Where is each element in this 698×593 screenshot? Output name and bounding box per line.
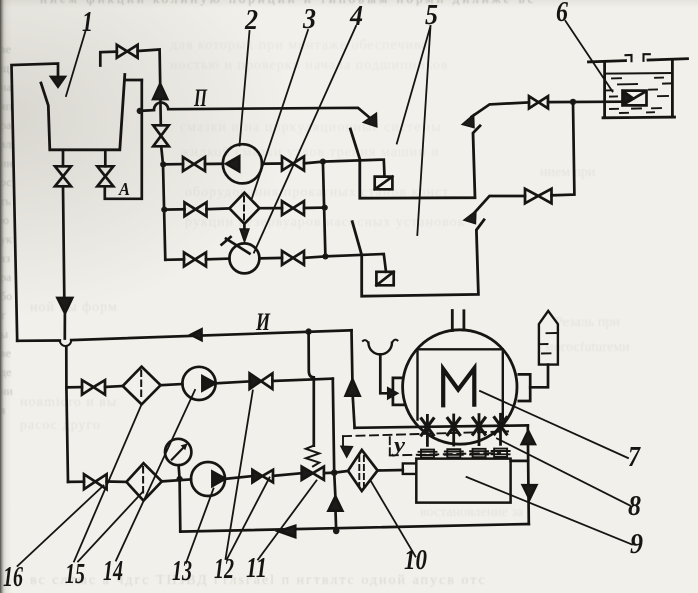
wire: drain continues to row A tee: [65, 313, 67, 387]
filter 10 (diamond, dashed cores): [348, 450, 378, 491]
wire: junction to filter 10: [334, 471, 348, 473]
row 2 right valve (bow-tie): [282, 201, 304, 215]
wire: fill pipe left of valve: [100, 52, 117, 66]
relief valve 11 (left solid): [302, 467, 313, 480]
leader 8: [497, 439, 630, 506]
wire: valve to arrow bend into tank 5b: [475, 196, 525, 212]
leader 1: [66, 31, 86, 96]
svg-text:11: 11: [246, 553, 267, 584]
suction valve (bow-tie, vertical): [153, 125, 169, 146]
svg-text:6: 6: [556, 0, 568, 28]
svg-text:2: 2: [244, 5, 258, 36]
hand pump 4 (circle with lever): [229, 243, 259, 273]
filter 15b (diamond, dashed core): [126, 463, 161, 501]
wire: check valve to relief valve: [273, 473, 302, 476]
wire: filter to pump 13: [162, 479, 191, 481]
node: rail row1: [160, 161, 166, 167]
row 3 left valve (bow-tie): [184, 252, 206, 266]
tank 5a: [350, 126, 480, 198]
row 1 right valve (bow-tie): [282, 157, 304, 171]
leader 10: [371, 481, 416, 557]
row 3: wire rail corner to valve: [165, 258, 184, 261]
heater in tank 5b (square with diagonal): [376, 272, 393, 286]
wire: bottle stem: [530, 365, 548, 388]
letter M: [443, 368, 474, 405]
wire: suction valve to left rail: [161, 146, 163, 164]
bottom return line: [180, 524, 529, 532]
arrow from U boundary into filter 10: [341, 446, 352, 457]
svg-text:И: И: [255, 309, 271, 336]
wire: hand pump to right valve: [259, 257, 282, 260]
node: tank6 branch: [570, 99, 576, 105]
wire: valve to pump 2: [205, 162, 223, 165]
leader 12 (two): [226, 391, 270, 560]
leader 14: [116, 390, 195, 561]
tank 6 body: [603, 61, 675, 118]
motor shaft stubs: [452, 311, 464, 331]
arrow up on lower rail: [329, 497, 343, 511]
relief drop from I line with jog over row A: [309, 332, 314, 446]
pump 14 (circle, solid triangle): [182, 367, 215, 400]
motor left bracket: [393, 378, 403, 405]
wire: branch down to lower valve: [552, 102, 575, 195]
arrow down on drain: [58, 298, 73, 313]
wire: relief valve to rail junction: [324, 471, 334, 474]
svg-text:7: 7: [628, 442, 641, 473]
node: P junction: [137, 108, 143, 114]
wire: filter 3 to right valve: [259, 207, 282, 210]
nozzle 8d: [495, 414, 507, 444]
wire: row1 extension to heater of tank 5a: [323, 160, 385, 177]
wire: pump 2 to right valve: [262, 162, 282, 165]
box 9 (reservoir): [416, 459, 510, 503]
wire: left rail of pump manifold: [163, 164, 165, 259]
wire: pump to check valve: [225, 476, 252, 479]
svg-text:3: 3: [302, 4, 316, 35]
svg-text:5: 5: [425, 0, 438, 31]
row 1: wire rail to valve: [163, 163, 183, 166]
arrow up on fill drop: [153, 84, 167, 99]
leader 3: [252, 30, 309, 200]
breather funnel: [368, 343, 392, 355]
tank 6 liquid hatch dashes: [607, 78, 671, 113]
svg-text:9: 9: [630, 529, 643, 560]
leader 11: [258, 481, 317, 560]
leader 9: [467, 477, 633, 545]
wire: valve to filter 3: [207, 207, 230, 211]
pump 2 (circle, solid triangle): [223, 144, 262, 183]
wire: lower right rail down: [333, 379, 336, 497]
wire: filter 10 to box 9: [378, 469, 403, 472]
svg-text:А: А: [118, 179, 130, 199]
arrow down on right riser: [523, 485, 537, 499]
wire: bottom line riser to row B: [178, 479, 181, 532]
wire: valve to rail: [304, 206, 325, 209]
svg-text:8: 8: [628, 491, 641, 522]
arrow into tank 1: [51, 77, 64, 87]
svg-text:12: 12: [214, 554, 234, 585]
row 2 left valve (bow-tie): [185, 202, 207, 216]
leader 15 (two): [74, 405, 143, 562]
arrow left on bottom line: [279, 526, 295, 537]
nozzle fittings on box 9: [419, 449, 510, 458]
tank 1 drain: valve and drop: [62, 151, 65, 166]
arrow up on right riser: [522, 431, 535, 444]
ghost bleed-through text layer: [40, 0, 670, 7]
spray manifold line: [355, 425, 528, 427]
node: right rail row1: [320, 159, 326, 165]
filter 3 (diamond, dashed core): [229, 193, 259, 224]
leader 7: [480, 391, 628, 458]
node: bottom line: [333, 528, 340, 535]
wire: filter to pump 14: [161, 384, 183, 385]
leader 13: [186, 489, 214, 564]
svg-text:у: у: [391, 432, 406, 457]
wire: valve to filter 15a: [105, 386, 123, 387]
spring of relief valve 11: [306, 446, 320, 467]
arrow left on I line: [191, 329, 202, 340]
motor housing square: [418, 349, 503, 419]
heater in tank 5a (square with diagonal): [375, 177, 393, 190]
wire: valve to hand pump 4: [206, 257, 229, 260]
pressure gauge 14': [165, 439, 191, 465]
row B valve (bow-tie): [84, 474, 107, 489]
wire: funnel stem with arrow into bracket: [380, 354, 388, 393]
arrow into tank 5a from P line: [363, 113, 376, 127]
wire: box 9 outlet to riser: [511, 460, 529, 463]
check valve 12b (left solid): [252, 470, 262, 483]
wire: gauge stem: [179, 465, 180, 479]
arrow into tank 5a right: [462, 115, 474, 128]
wire: I drop to spray line: [353, 396, 355, 428]
svg-text:10: 10: [404, 545, 427, 576]
svg-text:14: 14: [103, 556, 123, 587]
row B: corner to valve: [68, 480, 84, 483]
arrow up on I drop: [346, 380, 360, 396]
wire: valve to arrow bend: [472, 102, 529, 116]
wire: valve to filter 15b: [107, 480, 127, 483]
svg-text:1: 1: [82, 7, 93, 38]
loop crossing of drain over I line: [60, 340, 71, 346]
wire: return pipe left vertical to tank 1: [12, 64, 59, 341]
wire: valve A stub to tank bottom: [104, 150, 107, 166]
motor 7 (circle): [403, 330, 517, 444]
motor right bracket: [519, 374, 530, 401]
wire: filter 3 down-link to hand pump 4: [243, 224, 246, 230]
nozzle 8a: [421, 415, 433, 445]
node: rail/rowB/filter10 junction: [331, 469, 338, 476]
drain valve (bow-tie, vertical): [55, 166, 71, 186]
arrow into tank 5b: [464, 211, 476, 224]
box 9 inlet stub: [403, 463, 417, 474]
row A valve 16 (bow-tie): [82, 380, 105, 395]
wire: fill drop continues to suction valve: [159, 99, 162, 125]
row 1 left valve (bow-tie): [183, 157, 205, 171]
svg-text:15: 15: [65, 559, 85, 590]
row 3 right valve (bow-tie): [282, 251, 304, 265]
tank 1: [41, 75, 125, 150]
lower branch valve (bow-tie): [525, 189, 552, 204]
wire: pump to check valve: [216, 381, 250, 383]
wire: rail to bottom line node: [334, 511, 337, 531]
leader 2: [240, 31, 250, 146]
wire: check valve to rail corner, crossing relief drop: [272, 379, 332, 381]
wire: drain continues to row B corner: [66, 387, 68, 482]
row A: tee to valve: [66, 386, 82, 389]
leader 4: [254, 26, 356, 253]
tank 5b: [352, 220, 484, 296]
I line corner drop to spray manifold: [350, 330, 354, 380]
node: right rail row3: [322, 253, 328, 259]
leader 16: [18, 486, 104, 567]
check valve 12a (left solid): [250, 373, 261, 389]
row 2: wire rail to valve: [164, 208, 184, 211]
svg-text:13: 13: [172, 556, 192, 587]
node: rail row2: [161, 207, 167, 213]
svg-text:П: П: [193, 85, 208, 112]
filter 15a (diamond, dashed core): [123, 367, 161, 405]
svg-text:16: 16: [3, 562, 23, 593]
wire: vertical from lip through node P down to valve A loop: [105, 80, 142, 199]
node: right rail row2: [322, 205, 328, 211]
node: I line branch to relief: [305, 328, 311, 334]
wire: row3 extension to heater of tank 5b: [325, 254, 386, 272]
tank 6 valve (bow-tie): [529, 96, 548, 108]
tank 6 liquid level: [605, 72, 672, 75]
tank 1 overflow lip: [126, 79, 142, 82]
wire: valve to rail: [304, 256, 325, 257]
pipe I return line: [17, 330, 351, 341]
valve A (bow-tie, vertical): [97, 166, 113, 186]
pump 13 (circle, solid triangle): [191, 462, 225, 496]
wire: drain drop: [63, 186, 64, 298]
leader 6: [566, 21, 613, 92]
svg-text:4: 4: [349, 1, 363, 32]
unit U dashed boundary: [343, 431, 508, 455]
nozzle 8c: [473, 415, 485, 445]
tank 6 feed pipe with valve and node: [548, 100, 623, 103]
pipe P line with bridge over fill drop: [140, 103, 370, 118]
wire: right rail: [323, 162, 326, 257]
node: gauge / bottom riser junction: [177, 476, 183, 482]
wire: right spray riser: [528, 425, 529, 524]
arrow down to hand pump 4: [240, 229, 249, 242]
breather bottle on right bracket: [539, 311, 558, 365]
float device in tank 6 (rect, diagonal, solid triangle): [623, 91, 647, 106]
wire: valve to right rail: [304, 162, 323, 164]
wire: fill pipe right of valve down to manifold: [138, 50, 161, 85]
leader 5 (two): [397, 26, 431, 235]
fill valve top (bow-tie): [117, 45, 138, 58]
tank 6 lid: [589, 59, 688, 62]
nozzle 8b: [448, 415, 460, 445]
